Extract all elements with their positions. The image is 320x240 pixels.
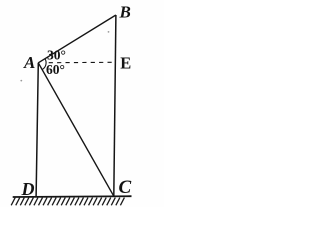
svg-text:60°: 60° xyxy=(46,62,65,77)
wire BC vertical xyxy=(114,15,116,196)
speck 1 xyxy=(20,80,22,82)
svg-text:B: B xyxy=(119,3,131,22)
speck 2 xyxy=(108,31,110,33)
wire AB xyxy=(38,15,116,63)
svg-text:30°: 30° xyxy=(47,48,66,63)
svg-text:A: A xyxy=(23,53,35,72)
ground hatching xyxy=(11,198,124,206)
angle arc at A xyxy=(42,59,46,70)
ground line DC xyxy=(13,195,132,198)
dashed line AE xyxy=(49,61,115,63)
wire AC xyxy=(38,63,114,196)
svg-text:D: D xyxy=(21,179,35,199)
wire AD vertical xyxy=(36,63,38,197)
svg-text:C: C xyxy=(119,177,132,198)
svg-text:E: E xyxy=(120,54,131,73)
